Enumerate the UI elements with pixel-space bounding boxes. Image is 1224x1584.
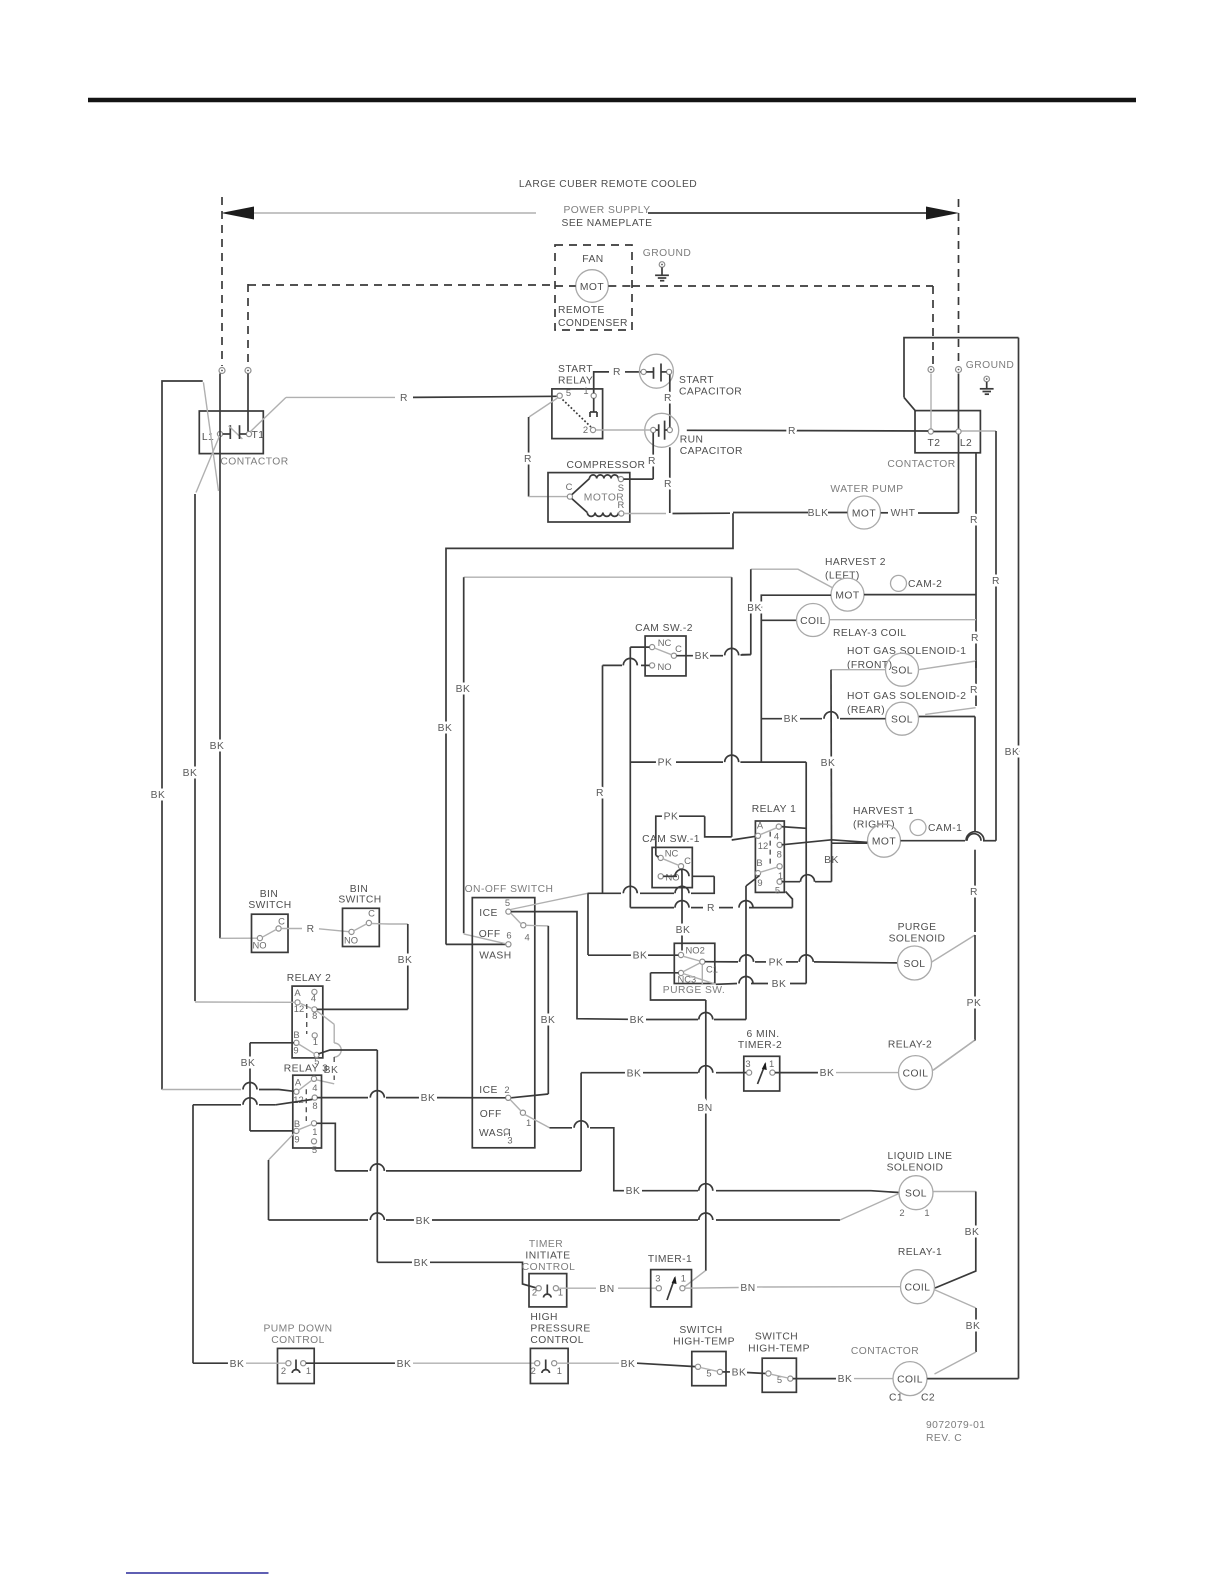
wire gray into terminal 6 <box>464 934 506 944</box>
timer initiate control pin 1 <box>553 1286 558 1291</box>
wire relay 1 pin 5 up to motor junction <box>782 881 800 883</box>
svg-text:2: 2 <box>899 1207 904 1218</box>
svg-text:ON-OFF SWITCH: ON-OFF SWITCH <box>465 884 554 895</box>
wire BK switch 1 to switch 2 <box>722 1371 731 1373</box>
svg-text:1: 1 <box>557 1365 562 1376</box>
right machine enclosure outline <box>904 338 1019 398</box>
svg-text:C2: C2 <box>921 1393 935 1404</box>
compressor winding to R <box>572 499 587 513</box>
contact bar T2-L2 <box>934 431 956 433</box>
wire terminal drop to T1 <box>247 374 249 432</box>
svg-text:BIN: BIN <box>260 889 279 900</box>
run capacitor circle <box>645 413 679 447</box>
relay 3 box <box>293 1075 322 1148</box>
wire dashed power drop T1 side <box>247 284 249 366</box>
wire gray diagonal L1 down to second BK drop <box>196 436 220 493</box>
svg-text:L2: L2 <box>960 438 972 449</box>
contactor T1 terminal <box>246 431 251 436</box>
svg-text:BK: BK <box>621 1359 636 1370</box>
wire relay 2 pin 8 to bin switch drop <box>317 1008 408 1010</box>
svg-text:BK: BK <box>210 741 225 752</box>
wire down to relay 1 pin 12 <box>705 816 732 837</box>
switch high-temp 2 arm <box>771 1374 788 1378</box>
svg-text:R: R <box>971 633 979 644</box>
svg-text:SWITCH: SWITCH <box>679 1325 722 1336</box>
svg-text:2: 2 <box>532 1287 537 1298</box>
svg-text:BN: BN <box>697 1103 712 1114</box>
svg-text:A: A <box>294 987 301 998</box>
svg-text:LIQUID LINE: LIQUID LINE <box>887 1151 952 1162</box>
svg-text:2: 2 <box>531 1365 536 1376</box>
svg-text:1: 1 <box>924 1207 929 1218</box>
svg-text:B: B <box>756 857 762 868</box>
relay 3 pin 4 <box>311 1076 316 1081</box>
svg-text:NC: NC <box>665 848 679 859</box>
svg-text:BK: BK <box>456 684 471 695</box>
relay 1 arm A <box>760 828 776 835</box>
bin switch 2 C terminal <box>366 920 371 925</box>
wire BK ice-5 feed into NO2 <box>588 954 632 956</box>
relay 1 pin 5 <box>777 879 782 884</box>
wire R drop from contactor to solenoids <box>975 453 977 706</box>
svg-text:1: 1 <box>526 1117 531 1128</box>
svg-text:R: R <box>970 685 978 696</box>
cam sw 1 arm <box>663 859 679 866</box>
svg-text:HARVEST 1: HARVEST 1 <box>853 806 914 817</box>
svg-text:12: 12 <box>758 840 768 851</box>
svg-text:WATER PUMP: WATER PUMP <box>830 484 903 495</box>
svg-text:CAPACITOR: CAPACITOR <box>679 387 742 398</box>
cam switch 1 actuator circle CAM-1 <box>910 820 926 836</box>
svg-text:1: 1 <box>583 385 588 396</box>
svg-text:START: START <box>679 375 714 386</box>
wire R drop to harvest 1 motor <box>995 431 997 841</box>
svg-text:COIL: COIL <box>897 1375 923 1386</box>
wire solenoid 2 left BK to coil net <box>840 718 886 720</box>
svg-text:CONTROL: CONTROL <box>522 1262 576 1273</box>
wire cam sw 2 NC left and down <box>630 646 649 648</box>
svg-text:HIGH: HIGH <box>530 1312 558 1323</box>
contact symbol L1-T1 <box>223 433 231 435</box>
timer initiate control pin 2 <box>536 1286 541 1291</box>
svg-text:9: 9 <box>293 1045 298 1056</box>
wire PK purge solenoid down to relay-2 coil <box>974 935 976 1040</box>
relay 2 pin 12 common <box>295 1000 300 1005</box>
svg-text:MOT: MOT <box>872 837 896 848</box>
svg-text:CONDENSER: CONDENSER <box>558 318 628 329</box>
svg-text:GROUND: GROUND <box>966 360 1014 371</box>
svg-text:HOT GAS SOLENOID-1: HOT GAS SOLENOID-1 <box>847 646 967 657</box>
svg-text:REV. C: REV. C <box>926 1433 962 1444</box>
harvest 1 motor circle <box>868 824 901 857</box>
svg-text:START: START <box>558 364 593 375</box>
wire cam sw 1 NO to junction <box>663 875 677 877</box>
wire gray to compressor common <box>529 496 568 498</box>
svg-text:PK: PK <box>658 758 673 769</box>
wire dashed power drop right side L2 <box>958 199 960 366</box>
relay 3 pin 12 common <box>294 1089 299 1094</box>
svg-text:2: 2 <box>281 1365 286 1376</box>
svg-text:A: A <box>757 820 764 831</box>
relay 3 arm A <box>299 1080 312 1090</box>
cam sw 2 NC terminal <box>650 645 655 650</box>
svg-text:TIMER: TIMER <box>529 1239 563 1250</box>
svg-text:NO: NO <box>253 940 267 951</box>
relay 2 mechanical link <box>306 1004 308 1034</box>
compressor terminal R <box>619 511 624 516</box>
wire BK into pump down control <box>192 1105 194 1363</box>
wire gray corner diagonal into L1 <box>203 382 218 491</box>
relay 1 pin 4 <box>776 824 781 829</box>
svg-text:ICE: ICE <box>479 908 498 919</box>
purge switch NO2 terminal <box>678 952 683 957</box>
cam sw 2 NO terminal <box>650 663 655 668</box>
switch high-temp 2 terminals <box>766 1371 771 1376</box>
on-off lower arm <box>510 1100 521 1111</box>
svg-text:SWITCH: SWITCH <box>248 900 291 911</box>
svg-text:SOLENOID: SOLENOID <box>887 1163 944 1174</box>
wire dashed power drop L1 side <box>221 197 223 366</box>
svg-text:PK: PK <box>664 812 679 823</box>
svg-text:COIL: COIL <box>800 616 826 627</box>
wire relay 1 pin 8 to harvest 1 motor <box>782 840 868 845</box>
svg-text:PURGE: PURGE <box>898 922 937 933</box>
high pressure symbol <box>545 1360 547 1370</box>
timer-2 arrow <box>758 1064 766 1085</box>
wire relay 3 pin 8 to on-off ICE 2 <box>317 1097 368 1099</box>
svg-text:4: 4 <box>524 932 529 943</box>
purge switch C1 stub <box>701 964 703 985</box>
start relay coil spring <box>563 400 592 428</box>
high pressure pin 1 <box>552 1361 557 1366</box>
wire solenoid 1 left <box>831 669 886 671</box>
wire relay-2 coil right diagonal <box>933 1040 976 1071</box>
svg-text:WASH: WASH <box>479 951 511 962</box>
svg-text:1: 1 <box>312 1126 317 1137</box>
relay 1 pin 12 common <box>755 833 760 838</box>
start relay pin 5 <box>557 393 562 398</box>
wire SOL-1 drop junction into harvest 1 motor <box>832 842 868 844</box>
contactor L1 terminal <box>217 431 222 436</box>
svg-text:HIGH-TEMP: HIGH-TEMP <box>748 1344 810 1355</box>
relay 2 arm A tail to relay 3 pin 4 <box>316 1011 334 1025</box>
timer-1 box <box>651 1270 692 1307</box>
svg-text:BK: BK <box>1005 747 1020 758</box>
svg-text:R: R <box>970 887 978 898</box>
relay 3 mechanical link <box>305 1089 307 1121</box>
start relay pin 2 <box>590 427 595 432</box>
wire R bin switch 1 to bin switch 2 <box>281 928 302 930</box>
svg-text:RELAY 2: RELAY 2 <box>287 973 332 984</box>
pump down pin 1 <box>301 1361 306 1366</box>
bin switch 1 box <box>252 914 289 952</box>
svg-text:8: 8 <box>777 849 782 860</box>
purge switch arms <box>683 956 700 961</box>
svg-text:BN: BN <box>599 1284 614 1295</box>
relay 2 pin 8 <box>312 1007 317 1012</box>
wire junction down to purge NO2 wire <box>587 893 589 955</box>
relay 3 pin 5 <box>311 1139 316 1144</box>
wire relay 2 B to relay 3 B <box>250 1042 294 1044</box>
svg-text:R: R <box>613 367 621 378</box>
svg-text:BK: BK <box>183 768 198 779</box>
terminal circle above T2 <box>928 367 934 373</box>
wire run capacitor right down to motor R wire <box>669 447 671 513</box>
svg-text:1: 1 <box>306 1365 311 1376</box>
relay 3 pin 8 <box>312 1095 317 1100</box>
wire NC3 gray diagonal to BK return <box>683 974 716 985</box>
relay-1 coil circle <box>901 1270 935 1304</box>
svg-text:NO: NO <box>657 661 671 672</box>
wire up to BK timer-2 feed <box>580 1073 582 1171</box>
hot gas solenoid 2 circle <box>886 702 919 735</box>
wire timer-2 pin 1 to relay-2 coil <box>775 1072 818 1074</box>
svg-text:ICE: ICE <box>479 1085 498 1096</box>
wire vertical R net down middle <box>731 577 733 837</box>
on-off switch box <box>472 898 535 1148</box>
terminal circle above L1 <box>219 368 225 374</box>
svg-text:3: 3 <box>655 1273 660 1284</box>
svg-text:C: C <box>566 481 573 492</box>
svg-text:CONTACTOR: CONTACTOR <box>887 459 955 470</box>
wire R drop solenoid 2 down to purge solenoid <box>919 716 975 718</box>
svg-text:1: 1 <box>681 1273 686 1284</box>
svg-text:C: C <box>278 916 285 927</box>
purge switch box <box>674 943 715 983</box>
svg-text:BK: BK <box>421 1093 436 1104</box>
svg-text:BK: BK <box>627 1069 642 1080</box>
wire PK cam sw 2 NC to relay 1 pin 4 <box>630 761 656 763</box>
svg-text:(REAR): (REAR) <box>847 705 885 716</box>
bin switch 1 arm <box>262 930 276 938</box>
wire R to relay 1 pin 5 <box>786 892 793 908</box>
svg-text:2: 2 <box>504 1084 509 1095</box>
svg-text:REMOTE: REMOTE <box>558 305 605 316</box>
6 min timer-2 box <box>744 1056 780 1091</box>
wire BK high pressure to switch high-temp 1 <box>557 1362 619 1364</box>
svg-text:COIL: COIL <box>903 1069 929 1080</box>
relay 2 box <box>292 986 323 1058</box>
svg-text:4: 4 <box>312 1082 317 1093</box>
svg-text:SEE NAMEPLATE: SEE NAMEPLATE <box>562 218 653 229</box>
svg-text:HIGH-TEMP: HIGH-TEMP <box>673 1337 735 1348</box>
timer-2 pin 1 <box>770 1070 775 1075</box>
wire pin 1 up to start capacitor <box>594 372 609 393</box>
svg-text:NO2: NO2 <box>686 945 705 956</box>
cam sw 2 C terminal <box>671 653 676 658</box>
svg-text:RUN: RUN <box>680 435 704 446</box>
hot gas solenoid 1 circle <box>886 653 919 686</box>
wire BK right enclosure drop to contactor coil <box>1018 338 1020 1379</box>
wire S terminal to run capacitor left <box>624 478 654 480</box>
svg-text:B: B <box>293 1029 299 1040</box>
svg-text:TIMER-2: TIMER-2 <box>738 1040 782 1051</box>
svg-text:OFF: OFF <box>479 929 501 940</box>
svg-text:R: R <box>664 479 672 490</box>
wire BK relay1/pk net to NC3 <box>790 983 806 985</box>
start relay contact from pin 1 <box>593 398 595 412</box>
contactor T2 terminal <box>928 429 933 434</box>
wire BK row to liquid line solenoid <box>269 1219 369 1221</box>
wire start relay pin 5 down to compressor C <box>529 398 558 417</box>
compressor winding to S <box>572 479 590 495</box>
pump down symbol <box>295 1360 297 1370</box>
svg-text:BK: BK <box>838 1374 853 1385</box>
svg-text:9: 9 <box>757 877 762 888</box>
svg-text:CONTACTOR: CONTACTOR <box>851 1346 919 1357</box>
svg-text:R: R <box>400 393 408 404</box>
switch high-temp 1 terminals <box>695 1364 700 1369</box>
wire BK pump down to high pressure control <box>306 1362 395 1364</box>
svg-text:RELAY-2: RELAY-2 <box>888 1040 932 1051</box>
wire ICE 5 diagonal up to junction <box>511 893 588 909</box>
svg-text:BK: BK <box>633 951 648 962</box>
wire relay-1 coil right down to contactor coil <box>934 1290 976 1309</box>
svg-text:BK: BK <box>821 758 836 769</box>
wire dashed horizontal to remote condenser <box>248 284 555 286</box>
svg-text:GROUND: GROUND <box>643 248 691 259</box>
compressor terminal S <box>618 477 623 482</box>
svg-text:PK: PK <box>769 958 784 969</box>
wire relay 2 pin 5 to timer initiate drop <box>318 1050 377 1054</box>
wire left outer BK into relay 3 pin 12 <box>162 1089 241 1091</box>
wire relay 3 pin 9 diagonal to BK liquid line row <box>269 1133 295 1160</box>
svg-text:RELAY-3 COIL: RELAY-3 COIL <box>833 628 907 639</box>
wire BK to timer initiate control <box>377 1261 412 1263</box>
wire BK drop to timer initiate control <box>376 1050 378 1262</box>
wire solenoid 2 right diagonal to R drop <box>925 708 975 715</box>
wire gray L1 to bin switch 1 NO <box>220 937 257 939</box>
svg-text:CAM SW.-2: CAM SW.-2 <box>635 623 693 634</box>
svg-text:CONTROL: CONTROL <box>271 1335 325 1346</box>
start relay box <box>552 389 603 439</box>
enclosure corner diagonal to contactor box <box>904 397 916 411</box>
run capacitor terminals and plates <box>651 427 656 432</box>
on-off terminal 3 WASH lower <box>504 1129 509 1134</box>
svg-text:SOL: SOL <box>904 959 926 970</box>
wire R from T1 to start relay pin 5 <box>251 397 287 431</box>
wire harvest 2 motor to R drop <box>864 594 976 596</box>
svg-text:5: 5 <box>505 897 510 908</box>
wire liquid line solenoid right to relay-1 coil <box>934 1191 976 1193</box>
svg-text:12: 12 <box>293 1094 303 1105</box>
svg-text:R: R <box>788 426 796 437</box>
svg-text:8: 8 <box>312 1100 317 1111</box>
purge switch C1 terminal <box>700 959 705 964</box>
svg-text:4: 4 <box>311 993 316 1004</box>
svg-text:SOL: SOL <box>891 715 913 726</box>
wire PK purge switch C1 to purge solenoid <box>705 961 738 963</box>
svg-text:R: R <box>707 903 715 914</box>
relay 1 box <box>755 821 784 892</box>
cam sw 1 C terminal <box>678 864 683 869</box>
relay 2 pin B common <box>294 1040 299 1045</box>
wire gray relay-3 coil to R drop <box>830 619 977 621</box>
svg-text:C: C <box>368 908 375 919</box>
svg-text:BLK: BLK <box>808 508 829 519</box>
timer initiate control box <box>529 1274 567 1307</box>
relay 1 arm B <box>760 867 777 872</box>
wire R drop from cam sw 2 NO <box>602 665 604 893</box>
wire dashed fan motor to right contactor enclosure <box>632 285 933 287</box>
svg-text:6 MIN.: 6 MIN. <box>746 1029 779 1040</box>
timer-1 pin 1 <box>680 1286 685 1291</box>
svg-text:BK: BK <box>820 1068 835 1079</box>
wire BK relay-2 coil net down <box>974 1039 976 1042</box>
svg-text:RELAY 1: RELAY 1 <box>752 804 797 815</box>
svg-text:BK: BK <box>241 1058 256 1069</box>
svg-text:L1: L1 <box>202 432 214 443</box>
relay 2 pin 4 <box>312 989 317 994</box>
timer-1 arrow <box>667 1278 675 1301</box>
svg-text:3: 3 <box>745 1058 750 1069</box>
relay-2 coil circle <box>899 1056 933 1090</box>
wire BK drop to relay 2 pin A <box>194 494 196 1001</box>
wire dashed stubs to fan motor <box>555 285 576 287</box>
svg-text:R: R <box>618 499 625 510</box>
contactor L2 terminal <box>956 429 961 434</box>
page top rule <box>88 98 1136 103</box>
contactor (right) box <box>915 411 980 453</box>
compressor motor common terminal C <box>567 494 572 499</box>
relay 1 pin 8 <box>777 842 782 847</box>
relay 2 arm A <box>300 1003 312 1009</box>
svg-text:T2: T2 <box>928 438 941 449</box>
svg-text:SOLENOID: SOLENOID <box>889 934 946 945</box>
wire purge solenoid right diagonal up <box>932 935 975 962</box>
wire power supply span with arrowheads <box>252 212 536 214</box>
svg-text:BK: BK <box>416 1216 431 1227</box>
relay 2 pin 5 <box>314 1052 319 1057</box>
cam switch 2 actuator circle CAM-2 <box>891 575 907 591</box>
svg-text:PRESSURE: PRESSURE <box>530 1324 590 1335</box>
wire terminal 1 to BK liquid line return <box>550 1127 573 1129</box>
wire cam sw 2 C to harvest/coil net BK <box>677 655 695 657</box>
svg-text:FAN: FAN <box>582 254 603 265</box>
wire loop NO2 net down to BN drop <box>651 972 679 974</box>
on-off terminal 5 ICE <box>506 909 511 914</box>
bin switch 1 NO terminal <box>257 936 262 941</box>
svg-text:T1: T1 <box>252 430 265 441</box>
wire ICE 5 right then down to BK row <box>511 912 628 1020</box>
svg-text:2: 2 <box>583 424 588 435</box>
wire terminal 4 stub to drop <box>526 924 548 927</box>
on-off terminal 6 <box>506 942 511 947</box>
svg-text:BK: BK <box>965 1227 980 1238</box>
svg-text:R: R <box>524 454 532 465</box>
svg-text:BK: BK <box>772 979 787 990</box>
svg-text:6: 6 <box>506 930 511 941</box>
svg-text:MOT: MOT <box>835 591 859 602</box>
wire solenoid 1 right diagonal to R drop <box>918 661 976 670</box>
svg-text:COIL: COIL <box>905 1283 931 1294</box>
wire start relay pin 2 to run capacitor <box>596 429 651 431</box>
svg-text:BK: BK <box>732 1368 747 1379</box>
wire down to cam sw 2 C net <box>750 569 752 654</box>
wire bin switch 2 C to relay 2 pin 8 <box>371 923 407 926</box>
relay 2 arm B <box>299 1044 315 1054</box>
start relay pin 1 <box>591 393 596 398</box>
wire terminal to T2 <box>930 374 932 429</box>
wire terminal to L2 <box>958 374 960 429</box>
wire diagonal tap to relay 1 pin 4 <box>781 827 806 829</box>
svg-text:CAM-1: CAM-1 <box>928 823 962 834</box>
on-off upper arm <box>511 913 522 924</box>
wire BN timer initiate to timer-1 <box>559 1287 597 1289</box>
relay 1 pin 9 common <box>755 871 760 876</box>
svg-text:BK: BK <box>966 1321 981 1332</box>
wire harvest 1 motor right to R drop <box>901 840 966 842</box>
